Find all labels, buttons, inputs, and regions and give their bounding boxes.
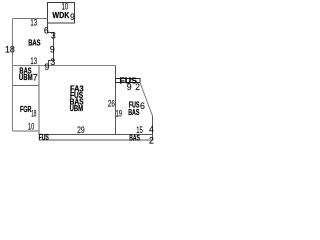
svg-text:2: 2 [135, 82, 140, 92]
svg-text:2: 2 [149, 136, 154, 146]
svg-text:4: 4 [149, 124, 154, 134]
svg-text:18: 18 [5, 45, 15, 55]
svg-text:19: 19 [116, 108, 122, 118]
svg-text:3: 3 [51, 31, 56, 41]
svg-text:9: 9 [45, 62, 50, 72]
svg-text:9: 9 [127, 82, 132, 92]
svg-text:18: 18 [31, 108, 36, 118]
svg-text:13: 13 [30, 56, 37, 66]
svg-text:6: 6 [140, 101, 145, 111]
svg-text:FGR: FGR [20, 104, 31, 114]
svg-text:10: 10 [62, 2, 69, 12]
svg-text:BAS: BAS [28, 37, 41, 47]
svg-text:7: 7 [33, 73, 38, 83]
svg-text:13: 13 [30, 17, 37, 27]
svg-text:9: 9 [70, 12, 75, 22]
svg-text:10: 10 [28, 122, 34, 132]
svg-text:FUS: FUS [39, 132, 49, 142]
svg-text:UBM: UBM [19, 72, 33, 82]
svg-text:15: 15 [136, 125, 143, 135]
svg-text:UBM: UBM [70, 103, 84, 113]
svg-text:6: 6 [44, 25, 49, 35]
svg-text:3: 3 [50, 57, 55, 67]
svg-text:26: 26 [108, 99, 115, 109]
svg-text:9: 9 [50, 44, 55, 54]
svg-text:29: 29 [77, 125, 85, 135]
svg-text:BAS: BAS [128, 107, 139, 117]
